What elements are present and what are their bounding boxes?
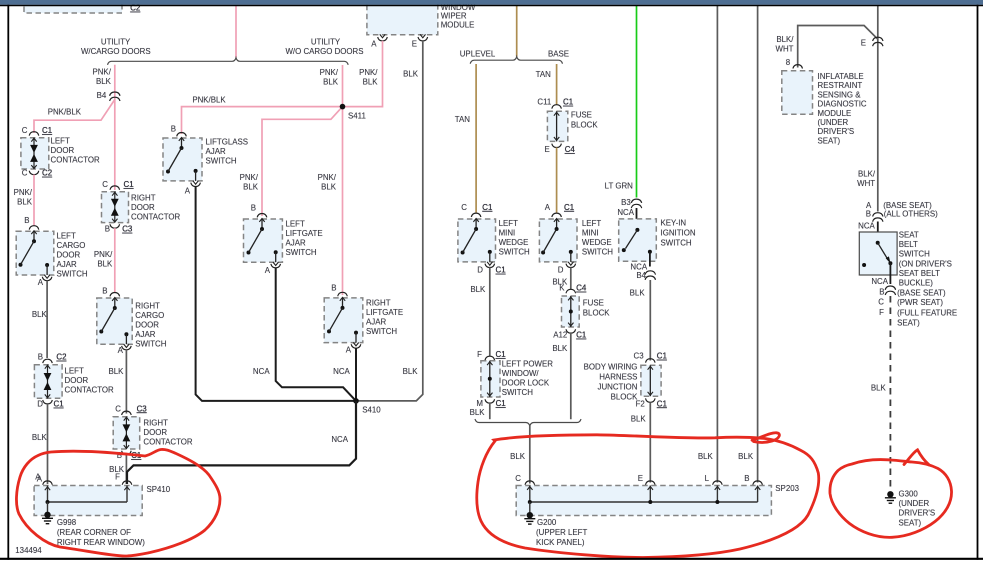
svg-text:JUNCTION: JUNCTION	[598, 382, 638, 391]
svg-text:DRIVER'S: DRIVER'S	[899, 509, 936, 518]
svg-text:B: B	[171, 125, 176, 134]
svg-text:BLK: BLK	[17, 198, 33, 207]
svg-text:NCA: NCA	[331, 435, 348, 444]
svg-text:PNK/: PNK/	[320, 68, 339, 77]
svg-text:C1: C1	[657, 352, 667, 361]
svg-text:D: D	[37, 400, 43, 409]
svg-text:HARNESS: HARNESS	[599, 372, 637, 381]
svg-text:PNK/: PNK/	[240, 173, 259, 182]
svg-text:DOOR: DOOR	[57, 250, 81, 259]
svg-text:SWITCH: SWITCH	[499, 247, 530, 256]
svg-text:RIGHT: RIGHT	[143, 418, 168, 427]
svg-text:(UNDER: (UNDER	[899, 499, 930, 508]
svg-text:LIFTGLASS: LIFTGLASS	[206, 138, 249, 147]
svg-text:PNK/: PNK/	[318, 173, 337, 182]
svg-text:M: M	[476, 399, 483, 408]
svg-text:F: F	[879, 308, 884, 317]
svg-text:DOOR: DOOR	[65, 376, 89, 385]
svg-text:E: E	[861, 39, 866, 48]
svg-text:NCA: NCA	[630, 262, 647, 271]
svg-text:DOOR: DOOR	[51, 146, 75, 155]
svg-text:BLK: BLK	[323, 78, 339, 87]
svg-text:B: B	[744, 474, 749, 483]
svg-text:L: L	[705, 474, 710, 483]
svg-text:SEAT): SEAT)	[897, 318, 920, 327]
svg-text:NCA: NCA	[617, 208, 634, 217]
svg-text:C4: C4	[565, 145, 576, 154]
svg-text:SP410: SP410	[147, 485, 171, 494]
svg-text:MODULE: MODULE	[441, 20, 475, 29]
svg-text:SWITCH: SWITCH	[502, 388, 533, 397]
svg-text:C: C	[515, 474, 521, 483]
svg-text:LEFT: LEFT	[65, 366, 84, 375]
svg-text:(UPPER LEFT: (UPPER LEFT	[536, 528, 587, 537]
svg-text:(REAR CORNER OF: (REAR CORNER OF	[57, 528, 131, 537]
svg-text:(ALL OTHERS): (ALL OTHERS)	[884, 210, 938, 219]
svg-text:B: B	[879, 288, 884, 297]
svg-text:SEAT BELT: SEAT BELT	[899, 269, 940, 278]
svg-text:BLK: BLK	[470, 285, 486, 294]
svg-text:LEFT: LEFT	[582, 219, 601, 228]
svg-text:SENSING &: SENSING &	[818, 90, 862, 99]
svg-text:BELT: BELT	[899, 240, 918, 249]
svg-text:LIFTGATE: LIFTGATE	[286, 229, 323, 238]
svg-text:G300: G300	[899, 489, 919, 498]
svg-text:C1: C1	[124, 180, 134, 189]
svg-text:BLK/: BLK/	[858, 169, 876, 178]
svg-text:C: C	[115, 404, 121, 413]
svg-text:RIGHT: RIGHT	[135, 301, 160, 310]
svg-text:WHT: WHT	[776, 44, 794, 53]
svg-text:(PWR SEAT): (PWR SEAT)	[897, 298, 943, 307]
svg-text:B: B	[38, 353, 43, 362]
svg-text:LEFT: LEFT	[51, 137, 70, 146]
svg-text:F: F	[477, 350, 482, 359]
svg-text:CONTACTOR: CONTACTOR	[131, 212, 181, 221]
svg-text:INFLATABLE: INFLATABLE	[818, 72, 864, 81]
svg-text:C: C	[22, 126, 28, 135]
svg-text:D: D	[558, 266, 564, 275]
svg-text:BLK: BLK	[510, 452, 526, 461]
svg-text:PNK/BLK: PNK/BLK	[192, 95, 226, 104]
svg-text:B3: B3	[621, 198, 631, 207]
svg-text:SEAT: SEAT	[899, 230, 919, 239]
svg-text:A: A	[38, 278, 44, 287]
svg-text:B: B	[105, 225, 110, 234]
svg-text:BLK: BLK	[698, 452, 714, 461]
svg-text:DIAGNOSTIC: DIAGNOSTIC	[818, 100, 867, 109]
svg-text:WINDOW/: WINDOW/	[502, 369, 540, 378]
svg-text:BLK: BLK	[738, 452, 754, 461]
svg-text:C1: C1	[657, 399, 667, 408]
svg-text:SWITCH: SWITCH	[899, 250, 930, 259]
svg-text:SEAT): SEAT)	[818, 136, 841, 145]
svg-text:C3: C3	[122, 225, 133, 234]
svg-text:MINI: MINI	[582, 228, 599, 237]
svg-text:BLOCK: BLOCK	[611, 392, 638, 401]
svg-text:SWITCH: SWITCH	[366, 327, 397, 336]
svg-text:E: E	[545, 145, 550, 154]
svg-text:SWITCH: SWITCH	[582, 247, 613, 256]
svg-text:8: 8	[786, 58, 791, 67]
svg-text:C: C	[102, 180, 108, 189]
svg-text:UTILITY: UTILITY	[311, 38, 341, 47]
svg-text:BLK: BLK	[630, 288, 646, 297]
svg-text:A: A	[35, 472, 41, 481]
svg-text:C: C	[878, 298, 884, 307]
svg-text:AJAR: AJAR	[366, 317, 386, 326]
svg-text:134494: 134494	[15, 546, 42, 555]
svg-text:C2: C2	[42, 169, 52, 178]
svg-text:A12: A12	[553, 331, 567, 340]
svg-text:IGNITION: IGNITION	[661, 228, 696, 237]
svg-text:CARGO: CARGO	[57, 241, 86, 250]
svg-text:F: F	[115, 472, 120, 481]
svg-text:PNK/: PNK/	[14, 188, 33, 197]
svg-text:BLK: BLK	[871, 384, 887, 393]
svg-text:BLOCK: BLOCK	[571, 120, 598, 129]
svg-text:E: E	[638, 474, 643, 483]
svg-text:C1: C1	[564, 203, 574, 212]
svg-text:BLK: BLK	[631, 414, 647, 423]
svg-text:DOOR: DOOR	[131, 203, 155, 212]
svg-text:BODY WIRING: BODY WIRING	[584, 362, 638, 371]
svg-text:KICK PANEL): KICK PANEL)	[536, 538, 585, 547]
svg-text:SWITCH: SWITCH	[135, 339, 166, 348]
svg-text:MODULE: MODULE	[818, 109, 852, 118]
svg-text:TAN: TAN	[455, 115, 470, 124]
svg-text:S411: S411	[348, 111, 366, 120]
svg-text:LEFT: LEFT	[286, 219, 305, 228]
svg-text:G200: G200	[537, 518, 557, 527]
svg-text:RIGHT: RIGHT	[131, 193, 156, 202]
svg-text:PNK/: PNK/	[92, 67, 111, 76]
svg-text:C1: C1	[496, 350, 506, 359]
svg-text:C1: C1	[482, 203, 492, 212]
svg-text:B: B	[24, 216, 29, 225]
svg-text:AJAR: AJAR	[57, 260, 77, 269]
svg-text:C4: C4	[576, 284, 587, 293]
svg-text:CARGO: CARGO	[135, 311, 164, 320]
svg-text:A: A	[371, 39, 377, 48]
svg-text:BLK: BLK	[97, 259, 113, 268]
svg-text:RIGHT REAR WINDOW): RIGHT REAR WINDOW)	[57, 538, 145, 547]
svg-text:LEFT: LEFT	[499, 219, 518, 228]
svg-text:BLK: BLK	[321, 183, 337, 192]
svg-text:C: C	[461, 203, 467, 212]
svg-text:LEFT POWER: LEFT POWER	[502, 359, 553, 368]
svg-text:CONTACTOR: CONTACTOR	[51, 156, 101, 165]
svg-text:AJAR: AJAR	[206, 147, 226, 156]
svg-text:UTILITY: UTILITY	[101, 38, 131, 47]
svg-text:CONTACTOR: CONTACTOR	[65, 385, 115, 394]
svg-text:C1: C1	[563, 98, 573, 107]
svg-text:BLK: BLK	[108, 367, 124, 376]
svg-text:WEDGE: WEDGE	[582, 238, 612, 247]
svg-text:A: A	[118, 346, 124, 355]
svg-text:PNK/: PNK/	[359, 68, 378, 77]
svg-text:BASE: BASE	[548, 50, 569, 59]
svg-text:SWITCH: SWITCH	[57, 269, 88, 278]
svg-text:A: A	[545, 203, 551, 212]
svg-text:C1: C1	[42, 126, 52, 135]
svg-text:DRIVER'S: DRIVER'S	[818, 127, 855, 136]
svg-text:W/CARGO DOORS: W/CARGO DOORS	[81, 47, 151, 56]
svg-text:RIGHT: RIGHT	[366, 298, 391, 307]
svg-text:AJAR: AJAR	[286, 238, 306, 247]
svg-text:BLK: BLK	[243, 183, 259, 192]
svg-text:SWITCH: SWITCH	[206, 157, 237, 166]
svg-text:NCA: NCA	[858, 221, 875, 230]
svg-text:WIPER: WIPER	[441, 12, 467, 21]
svg-text:G998: G998	[57, 518, 77, 527]
svg-text:DOOR: DOOR	[143, 428, 167, 437]
svg-text:AJAR: AJAR	[135, 330, 155, 339]
svg-text:BLK: BLK	[32, 310, 48, 319]
svg-text:B4: B4	[97, 91, 107, 100]
svg-text:BLK: BLK	[403, 367, 419, 376]
svg-text:BLK: BLK	[32, 433, 48, 442]
svg-text:NCA: NCA	[871, 277, 888, 286]
svg-text:W/O CARGO DOORS: W/O CARGO DOORS	[285, 47, 363, 56]
svg-text:SP203: SP203	[775, 484, 799, 493]
svg-text:SWITCH: SWITCH	[286, 248, 317, 257]
svg-text:BLK: BLK	[363, 78, 379, 87]
svg-text:BUCKLE): BUCKLE)	[899, 279, 934, 288]
svg-text:LT GRN: LT GRN	[605, 181, 634, 190]
svg-text:K: K	[559, 284, 565, 293]
svg-text:SWITCH: SWITCH	[661, 238, 692, 247]
svg-text:UPLEVEL: UPLEVEL	[460, 50, 496, 59]
svg-text:BLOCK: BLOCK	[583, 308, 610, 317]
svg-text:E: E	[412, 39, 417, 48]
svg-text:RESTRAINT: RESTRAINT	[818, 81, 863, 90]
svg-text:F2: F2	[636, 399, 645, 408]
svg-text:(UNDER: (UNDER	[818, 118, 849, 127]
svg-text:CONTACTOR: CONTACTOR	[143, 437, 193, 446]
svg-text:FUSE: FUSE	[583, 298, 604, 307]
svg-text:A: A	[265, 266, 271, 275]
svg-text:D: D	[477, 266, 483, 275]
svg-text:C1: C1	[54, 400, 64, 409]
svg-text:C1: C1	[576, 331, 586, 340]
svg-text:BLK: BLK	[470, 408, 486, 417]
svg-text:NCA: NCA	[333, 367, 350, 376]
svg-text:B: B	[251, 204, 256, 213]
svg-text:LIFTGATE: LIFTGATE	[366, 308, 403, 317]
svg-text:WHT: WHT	[857, 179, 875, 188]
svg-text:C2: C2	[56, 353, 66, 362]
svg-text:KEY-IN: KEY-IN	[661, 218, 687, 227]
svg-text:(ON DRIVER'S: (ON DRIVER'S	[899, 259, 952, 268]
svg-text:BLK: BLK	[96, 77, 112, 86]
svg-text:B: B	[331, 284, 336, 293]
svg-text:(BASE SEAT): (BASE SEAT)	[897, 288, 946, 297]
svg-text:SEAT): SEAT)	[899, 518, 922, 527]
svg-text:B: B	[102, 286, 107, 295]
svg-text:C3: C3	[634, 352, 645, 361]
svg-text:C1: C1	[496, 399, 506, 408]
svg-text:PNK/: PNK/	[94, 250, 113, 259]
svg-text:C11: C11	[537, 98, 551, 107]
svg-text:NCA: NCA	[253, 367, 270, 376]
svg-text:DOOR: DOOR	[135, 320, 159, 329]
svg-text:B: B	[866, 209, 871, 218]
svg-text:C3: C3	[137, 404, 148, 413]
svg-text:BLK/: BLK/	[776, 35, 794, 44]
svg-text:BLK: BLK	[552, 344, 568, 353]
svg-text:LEFT: LEFT	[57, 231, 76, 240]
svg-text:C1: C1	[496, 266, 506, 275]
svg-text:BLK: BLK	[403, 69, 419, 78]
svg-text:FUSE: FUSE	[571, 110, 592, 119]
svg-text:MINI: MINI	[499, 228, 516, 237]
svg-text:A: A	[185, 186, 191, 195]
svg-text:C: C	[22, 169, 28, 178]
svg-text:(FULL FEATURE: (FULL FEATURE	[897, 308, 957, 317]
svg-text:A: A	[346, 346, 352, 355]
svg-text:DOOR LOCK: DOOR LOCK	[502, 378, 550, 387]
svg-text:PNK/BLK: PNK/BLK	[48, 107, 82, 116]
svg-text:WEDGE: WEDGE	[499, 238, 529, 247]
svg-text:TAN: TAN	[536, 70, 551, 79]
svg-text:S410: S410	[362, 406, 381, 415]
